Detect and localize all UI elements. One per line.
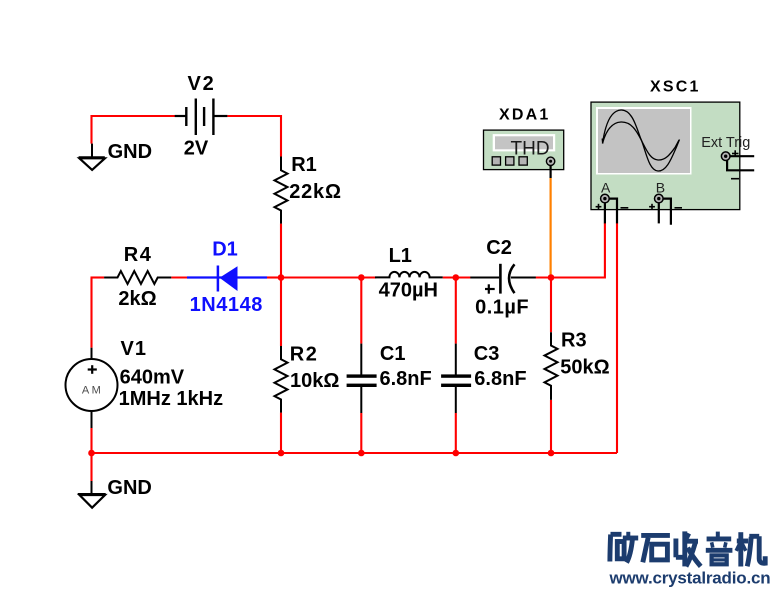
svg-text:B: B xyxy=(656,179,665,195)
svg-text:D1: D1 xyxy=(212,239,238,261)
svg-text:640mV: 640mV xyxy=(120,367,185,389)
svg-text:THD: THD xyxy=(511,139,550,160)
svg-text:0.1µF: 0.1µF xyxy=(475,296,529,318)
svg-text:C2: C2 xyxy=(486,237,512,259)
svg-text:2kΩ: 2kΩ xyxy=(118,288,156,310)
svg-text:C1: C1 xyxy=(380,343,406,365)
svg-text:GND: GND xyxy=(108,141,152,163)
svg-text:R3: R3 xyxy=(561,330,587,352)
svg-text:1MHz 1kHz: 1MHz 1kHz xyxy=(119,388,223,410)
svg-text:22kΩ: 22kΩ xyxy=(289,181,342,203)
svg-text:www.crystalradio.cn: www.crystalradio.cn xyxy=(609,569,771,588)
svg-text:6.8nF: 6.8nF xyxy=(474,368,526,390)
svg-text:V1: V1 xyxy=(121,338,147,360)
svg-text:V2: V2 xyxy=(188,73,216,95)
svg-text:R4: R4 xyxy=(124,244,153,266)
svg-text:XDA1: XDA1 xyxy=(499,106,550,123)
svg-text:1N4148: 1N4148 xyxy=(190,294,263,316)
svg-text:6.8nF: 6.8nF xyxy=(380,368,432,390)
svg-text:L1: L1 xyxy=(389,245,412,267)
svg-text:R2: R2 xyxy=(290,343,319,365)
svg-text:470µH: 470µH xyxy=(379,280,438,302)
svg-text:C3: C3 xyxy=(474,343,500,365)
svg-text:50kΩ: 50kΩ xyxy=(560,357,609,379)
svg-text:2V: 2V xyxy=(184,137,209,159)
svg-text:GND: GND xyxy=(107,477,151,499)
svg-text:XSC1: XSC1 xyxy=(650,79,701,96)
svg-text:10kΩ: 10kΩ xyxy=(290,370,339,392)
svg-text:AM: AM xyxy=(82,384,104,396)
svg-text:R1: R1 xyxy=(291,154,317,176)
svg-text:A: A xyxy=(601,179,611,195)
svg-text:Ext Trig: Ext Trig xyxy=(701,135,750,151)
